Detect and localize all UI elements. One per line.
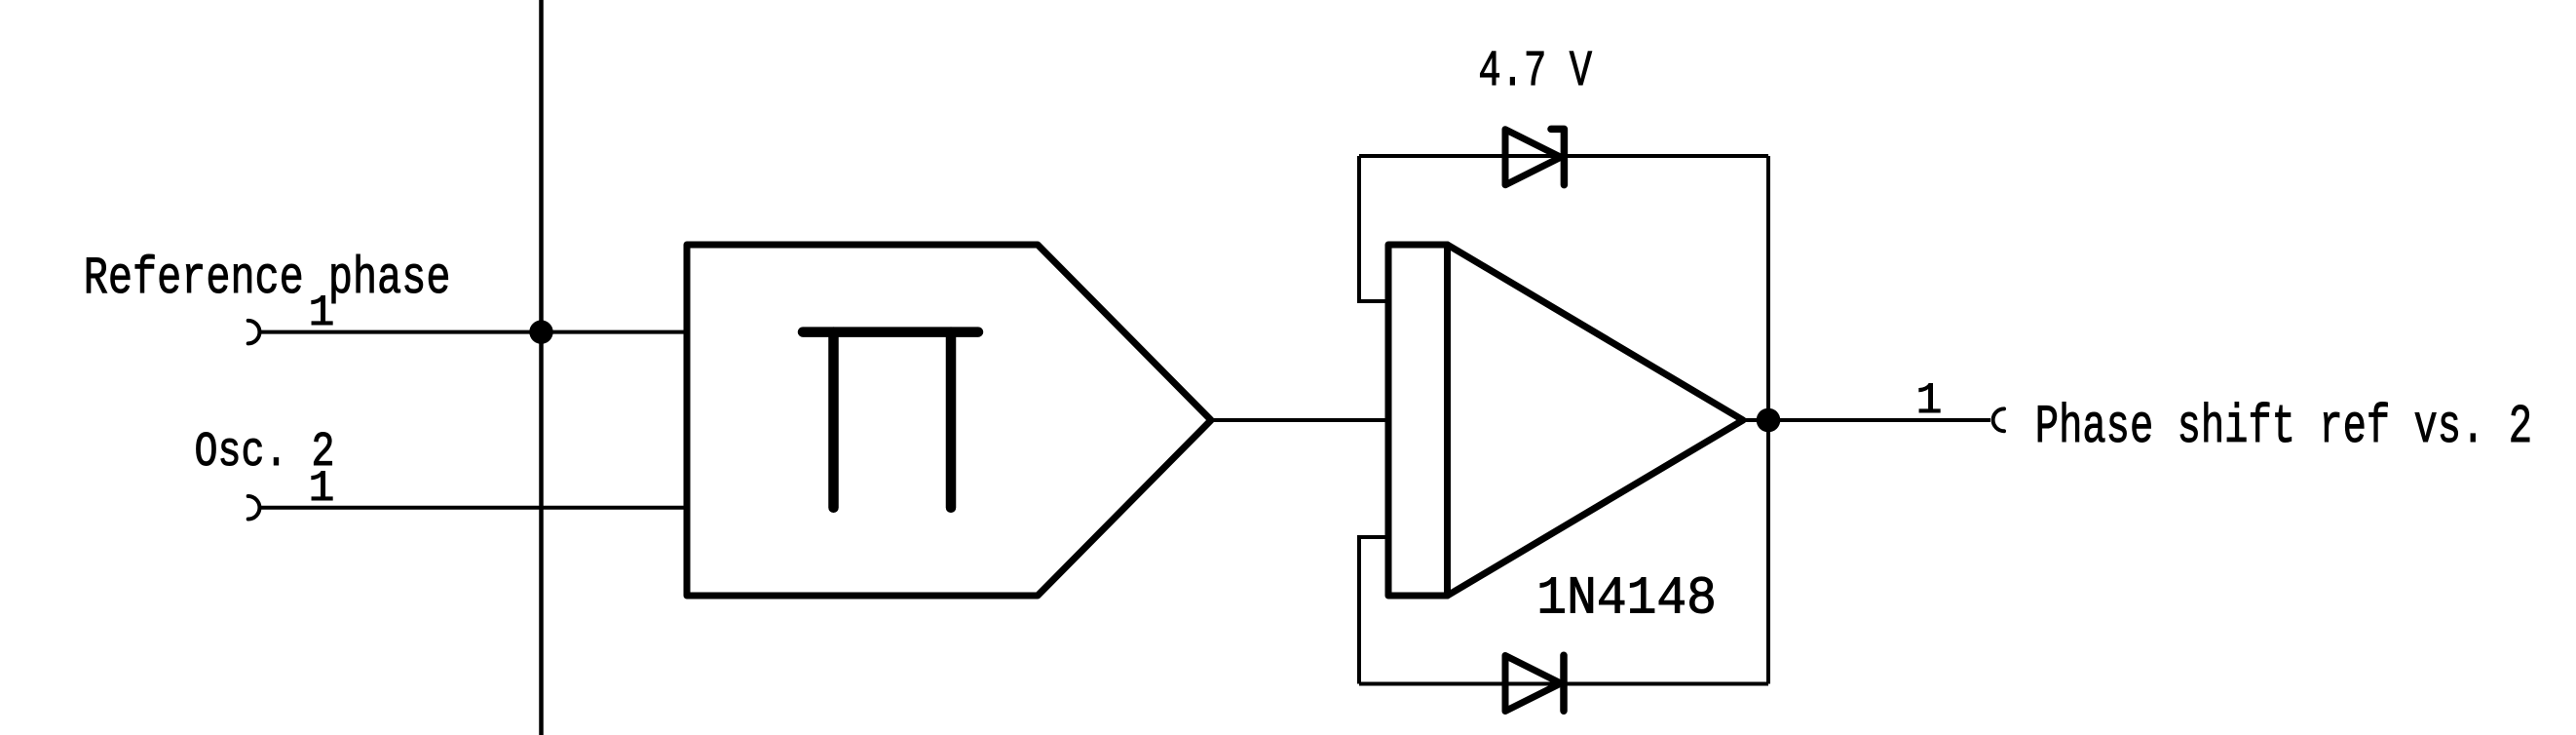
amplifier U2 input bar [1388,245,1448,596]
svg-text:Reference phase: Reference phase [84,249,451,308]
wire feedback bottom [1359,682,1768,686]
amplifier U2 triangle [1448,245,1744,596]
wire feedback stub top [1359,156,1388,301]
mixer U1 pentagon body [687,245,1211,596]
svg-text:Phase shift ref vs. 2: Phase shift ref vs. 2 [2035,396,2532,458]
wire feedback right vertical [1766,156,1770,684]
zener diode D1 [1505,129,1564,184]
connector output [1993,408,2004,431]
svg-text:1: 1 [1916,377,1943,426]
wire Reference phase input [261,330,687,334]
junction on reference wire at bus [529,320,552,343]
diode D2 1N4148 [1505,655,1564,711]
mixer pulse symbol [803,332,978,508]
connector input Reference phase [248,321,260,344]
connector input Osc. 2 [248,496,260,520]
wire feedback stub bottom [1359,537,1388,684]
svg-text:1N4148: 1N4148 [1536,568,1717,629]
junction at amplifier output [1757,408,1781,433]
wire vertical bus line [539,0,544,735]
wire mixer output to amplifier [1211,418,1388,422]
svg-text:4.7 V: 4.7 V [1478,43,1592,100]
wire Osc. 2 input [261,506,687,510]
wire amplifier output [1743,418,1990,422]
wire feedback top [1359,154,1768,158]
